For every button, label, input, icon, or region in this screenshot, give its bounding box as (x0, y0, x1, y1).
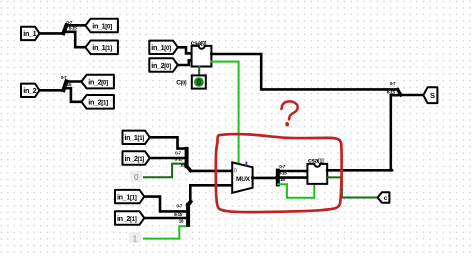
wire constant 1 to SP4 leg 16 (value 1) (144, 226, 186, 238)
tunnel in_1 (21, 27, 40, 40)
wire in_1 to splitter SP1 (36, 32, 63, 35)
svg-text:in_1[1]: in_1[1] (117, 193, 137, 202)
svg-text:1: 1 (133, 233, 138, 243)
svg-text:0-7: 0-7 (61, 75, 67, 80)
input pin C[0] (192, 75, 206, 88)
tunnel in_2 (21, 84, 40, 97)
wire csa1 carry out to MUX select (value 1) (211, 62, 238, 165)
svg-text:0: 0 (197, 78, 202, 87)
tunnel S (sink) (423, 87, 437, 103)
red annotation ellipse (216, 134, 342, 212)
wire in_1[1] to SP3 leg 0-7 (150, 137, 186, 148)
wire csa2 sum out to SP6 vertical (327, 169, 392, 172)
wire SP3 combined to MUX input 0 (190, 170, 233, 173)
svg-text:in_2[1]: in_2[1] (88, 98, 108, 107)
tunnel in_1[0] (source, feeds csa[0]) (149, 41, 178, 54)
wire SP2 leg 8-15 to tunnel in_2[1] (66, 88, 82, 102)
tunnel in_2[1] (source, bottom) (115, 211, 144, 224)
tunnel in_2[0] (sink, left-pointing) (81, 75, 114, 89)
subcircuit csa[0] U1 (192, 46, 212, 67)
tunnel in_2[1] (source, mid) (123, 151, 150, 164)
svg-text:8-15: 8-15 (63, 82, 72, 87)
tunnel in_1[1] (source, mid) (123, 131, 150, 144)
wire SP5 leg 16 to csa2 carry-in (value 1) (278, 184, 314, 198)
svg-text:MUX: MUX (236, 176, 251, 183)
svg-text:0-7: 0-7 (279, 164, 285, 169)
wire in_2[1] to SP4 leg 8-15 (144, 217, 185, 220)
svg-text:S: S (430, 91, 435, 100)
wire in_1[0] to csa1 pin A (178, 47, 192, 53)
wire SP5 leg 0-7 to csa2 pin A (278, 170, 308, 173)
tunnel in_1[0] (sink, left-pointing) (85, 19, 118, 33)
constant 1 (bottom) (129, 232, 141, 243)
svg-text:in_1[1]: in_1[1] (92, 43, 112, 52)
svg-text:8-15: 8-15 (387, 89, 396, 94)
splitter SP1 (63, 25, 66, 33)
splitter SP5 (276, 171, 280, 185)
svg-text:8-15: 8-15 (279, 171, 288, 176)
wire in_2[1] to SP3 leg 8-15 (150, 157, 185, 160)
tunnel in_1[1] (source, bottom) (115, 190, 144, 203)
svg-text:0-7: 0-7 (176, 203, 182, 208)
svg-text:C[0]: C[0] (176, 79, 186, 86)
constant 0 (mid) (130, 171, 142, 182)
wire csa1 sum output bus to splitter SP6 (211, 54, 398, 89)
wire SP4 combined to MUX input 1 (190, 185, 232, 202)
wire csa1 carry-in from pin C[0] (value 0) (198, 67, 200, 76)
floating enable stub (blue) (245, 162, 247, 166)
wire SP1 leg 0-7 to tunnel in_1[0] (66, 24, 86, 27)
wire MUX output to SP5 (252, 177, 276, 180)
wire SP6 combined to tunnel S (400, 94, 423, 97)
svg-text:in_2: in_2 (23, 86, 36, 95)
svg-text:in_1[1]: in_1[1] (125, 133, 145, 142)
splitter SP2 (63, 81, 66, 90)
svg-text:in_1[0]: in_1[0] (151, 43, 171, 52)
wire constant 0 to SP3 leg 16 (value 0) (144, 164, 184, 178)
tunnel in_2[1] (sink, left-pointing) (81, 95, 114, 109)
wire SP1 leg 8-15 to tunnel in_1[1] (66, 32, 86, 47)
svg-text:8-15: 8-15 (69, 26, 78, 31)
splitter SP3 (185, 149, 189, 166)
svg-text:c: c (384, 195, 388, 202)
red question mark annotation (282, 101, 298, 119)
svg-text:0-7: 0-7 (175, 151, 181, 156)
svg-text:in_1[0]: in_1[0] (92, 21, 112, 30)
svg-text:in_2[0]: in_2[0] (88, 78, 108, 87)
wire in_2[0] to csa1 pin B (178, 60, 192, 65)
svg-text:0: 0 (234, 167, 238, 174)
splitter SP4 (186, 205, 190, 225)
tunnel in_1[1] (sink, left-pointing) (85, 41, 118, 55)
svg-text:0: 0 (134, 172, 139, 182)
tunnel c (sink) (378, 192, 390, 203)
svg-text:0-7: 0-7 (390, 81, 396, 86)
svg-text:in_2[0]: in_2[0] (151, 61, 171, 70)
svg-text:16: 16 (179, 219, 184, 224)
wire in_2 to splitter SP2 (36, 89, 63, 92)
svg-text:in_2[1]: in_2[1] (125, 154, 145, 163)
splitter SP6 (merge to S) (398, 90, 401, 96)
wire in_1[1] to SP4 leg 0-7 (144, 197, 185, 212)
wire SP2 leg 0-7 to tunnel in_2[0] (66, 80, 82, 83)
svg-text:csa[1]: csa[1] (308, 158, 324, 165)
svg-text:in_2[1]: in_2[1] (117, 214, 137, 223)
tunnel in_2[0] (source, feeds csa[0]) (149, 58, 178, 71)
svg-text:8-15: 8-15 (175, 157, 184, 162)
subcircuit csa[1] U2 (307, 164, 327, 184)
multiplexer MUX (232, 162, 252, 193)
svg-text:0-7: 0-7 (66, 20, 72, 25)
wire SP5 leg 8-15 to csa2 pin B (276, 176, 307, 179)
svg-text:8-15: 8-15 (174, 212, 183, 217)
wire csa2 carry out to tunnel c (value 0) (327, 177, 377, 197)
svg-text:in_1: in_1 (23, 29, 36, 38)
svg-text:csa[0]: csa[0] (191, 40, 207, 47)
wire SP6 leg 8-15 (391, 94, 398, 97)
wire bus csa2 sum up to SP6 (389, 95, 392, 170)
